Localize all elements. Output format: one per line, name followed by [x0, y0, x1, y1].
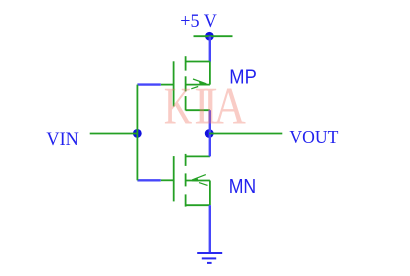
svg-text:A: A: [213, 78, 246, 136]
node input junction: [133, 129, 142, 138]
transistor MP: [161, 56, 210, 110]
gate pin: [161, 179, 174, 181]
wire output node to NMOS drain: [209, 134, 211, 157]
gate bar: [173, 61, 175, 106]
wire VIN gate segment N: [137, 179, 160, 181]
svg-text:VIN: VIN: [46, 129, 79, 150]
node output junction: [205, 129, 214, 138]
svg-text:K: K: [164, 78, 193, 136]
svg-text:VOUT: VOUT: [289, 127, 338, 147]
bulk-source connect: [209, 62, 211, 85]
channel dashes: [185, 56, 187, 70]
wire PMOS source to output node: [209, 110, 211, 133]
bulk arrow: [192, 175, 206, 180]
wire VIN gate segment P: [137, 83, 160, 85]
gate pin: [161, 84, 174, 86]
pin stubs: [186, 155, 210, 157]
wire NMOS source to ground: [209, 205, 211, 253]
power bar +5V: [194, 35, 233, 37]
bulk arrow: [193, 79, 206, 84]
KIA watermark: [164, 78, 246, 136]
node power junction: [205, 32, 214, 41]
transistor MN: [161, 154, 210, 207]
wire power to PMOS drain: [209, 36, 211, 61]
wire VIN lead: [90, 133, 138, 135]
wire gate connect vertical: [136, 85, 138, 181]
wire VOUT lead: [209, 133, 282, 135]
svg-text:+5 V: +5 V: [180, 11, 217, 32]
bulk-source connect: [209, 181, 211, 206]
pin stubs: [186, 61, 210, 63]
svg-text:MN: MN: [229, 175, 257, 198]
ground: [197, 253, 222, 263]
channel dashes: [185, 154, 187, 166]
gate bar: [173, 156, 175, 201]
